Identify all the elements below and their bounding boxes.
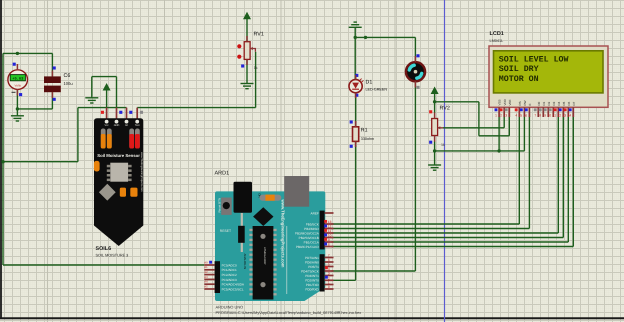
svg-text:8: 8: [539, 113, 541, 117]
svg-text:2: 2: [500, 113, 502, 117]
svg-text:5: 5: [328, 263, 330, 267]
svg-text:ARD1: ARD1: [215, 171, 230, 177]
svg-text:PD5/T1: PD5/T1: [308, 265, 319, 269]
svg-text:+5.63: +5.63: [12, 77, 24, 82]
Arduino UNO board ARD1: [215, 176, 325, 301]
wire: ground rail to LCD VSS and RW: [435, 150, 525, 152]
svg-text:11: 11: [328, 229, 332, 233]
svg-text:ARDUINO UNO: ARDUINO UNO: [216, 305, 244, 310]
svg-text:PD1/TXD: PD1/TXD: [306, 283, 320, 287]
svg-text:R1: R1: [361, 128, 368, 134]
svg-text:A3: A3: [204, 276, 208, 279]
node: junction at VSS wire: [497, 149, 500, 152]
svg-text:SOIL6: SOIL6: [96, 246, 112, 252]
svg-text:D1: D1: [542, 101, 546, 105]
svg-text:PD3/INT1: PD3/INT1: [305, 274, 319, 278]
node: junction A0 branch: [1, 160, 4, 163]
svg-text:PD7/AIN1: PD7/AIN1: [305, 256, 319, 260]
voltmeter (DC volts probe): [8, 63, 28, 97]
wire: voltmeter bottom / C6 bottom rail: [16, 89, 18, 116]
wire: A0 net branch to sensor: [3, 161, 78, 163]
svg-text:1: 1: [495, 113, 497, 117]
svg-text:11: 11: [553, 113, 557, 117]
DC motor: [406, 54, 425, 89]
wire: C6 legs: [51, 53, 53, 76]
svg-text:Reset BTN: Reset BTN: [217, 198, 221, 213]
svg-text:PC0/ADC0: PC0/ADC0: [222, 263, 237, 267]
wire: A0 net to Arduino PC0: [3, 264, 204, 266]
svg-text:1k: 1k: [254, 66, 258, 70]
node: junction voltmeter bottom: [16, 107, 19, 110]
LED D1 LED-GREEN: [349, 74, 363, 97]
svg-text:1: 1: [328, 281, 330, 285]
svg-text:12: 12: [328, 225, 332, 229]
svg-text:A1: A1: [204, 266, 208, 269]
svg-text:4: 4: [515, 113, 517, 117]
svg-text:12: 12: [558, 113, 562, 117]
svg-text:PB5/SCK: PB5/SCK: [306, 222, 320, 226]
svg-text:A0: A0: [204, 261, 208, 264]
svg-text:D4: D4: [557, 101, 561, 105]
svg-text:6: 6: [328, 258, 330, 262]
ground below RV2: [428, 164, 441, 166]
svg-text:E: E: [528, 103, 532, 105]
svg-text:6: 6: [525, 113, 527, 117]
wire: LCD D5 to Arduino pin 10: [562, 117, 564, 238]
power +5V arrow at sensor Vcc: [103, 83, 111, 91]
svg-text:SOIL DRY: SOIL DRY: [499, 65, 539, 74]
svg-text:PB2/SS/OC1B: PB2/SS/OC1B: [299, 236, 319, 240]
svg-text:10: 10: [328, 234, 332, 238]
wire: sensor Test to RV1 wiper: [137, 107, 255, 109]
Arduino right header AREF/PB5-PB0 (pins 13-8): [295, 211, 334, 250]
svg-text:SOIL LEVEL LOW: SOIL LEVEL LOW: [499, 56, 569, 65]
svg-text:AREF: AREF: [311, 212, 319, 216]
svg-text:RV2: RV2: [440, 105, 450, 111]
svg-text:PC4/ADC4/SDA: PC4/ADC4/SDA: [222, 283, 245, 287]
svg-text:C6: C6: [64, 73, 71, 79]
svg-text:Test: Test: [135, 124, 140, 127]
svg-text:PC1/ADC1: PC1/ADC1: [222, 268, 237, 272]
svg-text:PB0/ICP1/CLKO: PB0/ICP1/CLKO: [296, 245, 319, 249]
svg-text:D6: D6: [567, 101, 571, 105]
sheet border left edge: [0, 0, 2, 319]
svg-text:PB3/MOSI/OC2A: PB3/MOSI/OC2A: [295, 231, 320, 235]
svg-text:www.TheEngineeringProjects.com: www.TheEngineeringProjects.com: [140, 152, 143, 192]
svg-text:1k: 1k: [441, 143, 445, 147]
wire: LCD D6 to Arduino pin 9: [567, 117, 569, 243]
cursor guideline (blue vertical): [444, 0, 446, 322]
svg-text:PD4/T0/XCK: PD4/T0/XCK: [301, 269, 320, 273]
svg-text:D0: D0: [537, 101, 541, 105]
svg-text:LM041L: LM041L: [490, 39, 504, 43]
svg-text:A5: A5: [204, 285, 208, 288]
svg-text:VSS: VSS: [498, 99, 502, 105]
resistor R1 330ohm: [350, 120, 359, 147]
wire: A0 net top rail: [3, 52, 52, 54]
svg-text:330ohm: 330ohm: [361, 137, 374, 141]
wire: R1 to Arduino PD2: [355, 141, 357, 280]
svg-text:PC5/ADC5/SCL: PC5/ADC5/SCL: [222, 287, 244, 291]
svg-text:www.TheEngineeringProjects.com: www.TheEngineeringProjects.com: [281, 199, 286, 268]
svg-text:PROGRAM=C:\Users\My\AppData\Lo: PROGRAM=C:\Users\My\AppData\Local\Temp\a…: [216, 310, 362, 315]
wire: sensor GND bracket: [116, 77, 118, 108]
svg-text:Soil Moisture Sensor: Soil Moisture Sensor: [97, 153, 140, 158]
svg-text:VEE: VEE: [508, 99, 512, 105]
svg-text:PD6/AIN0: PD6/AIN0: [305, 260, 319, 264]
svg-text:3: 3: [328, 272, 330, 276]
ground below voltmeter: [11, 115, 24, 117]
potentiometer RV2 1k: [429, 105, 450, 147]
svg-text:PD0/RXD: PD0/RXD: [305, 287, 319, 291]
svg-text:VDD: VDD: [503, 98, 507, 105]
svg-text:A2: A2: [204, 271, 208, 274]
svg-text:5: 5: [520, 113, 522, 117]
svg-text:ANALOG IN: ANALOG IN: [243, 254, 247, 270]
svg-text:RV1: RV1: [254, 32, 264, 38]
sheet border bottom edge: [0, 317, 624, 319]
ground rail above LED and motor (inverted ground): [349, 26, 362, 28]
Arduino left header PC0-PC5 (analog A0-A5): [204, 261, 245, 293]
soil moisture sensor SOIL6 pins: [101, 108, 143, 119]
svg-text:3: 3: [505, 113, 507, 117]
svg-text:RESET: RESET: [220, 229, 231, 233]
wire: LCD D4 to Arduino pin 11: [557, 117, 559, 234]
svg-text:7: 7: [534, 113, 536, 117]
LCD pins VSS-VEE, RS RW E, D0-D7: [495, 98, 576, 117]
node: junction RV2 top: [433, 100, 436, 103]
wire: LCD E to Arduino pin 12: [528, 117, 530, 229]
svg-text:PC2/ADC2: PC2/ADC2: [222, 273, 237, 277]
wire: RV2 bottom to ground: [434, 142, 436, 166]
svg-text:10: 10: [548, 113, 552, 117]
svg-text:4: 4: [328, 267, 330, 271]
svg-text:MOTOR ON: MOTOR ON: [499, 75, 539, 84]
wire: LCD D7 to Arduino pin 8: [572, 117, 574, 247]
wire: RV2 top stem: [434, 93, 436, 113]
svg-text:ATMEGA328P: ATMEGA328P: [263, 247, 266, 265]
svg-text:D7: D7: [572, 101, 576, 105]
wire: RV1 top stem: [246, 19, 248, 42]
node: junction RV2 bottom: [433, 149, 436, 152]
svg-text:D1: D1: [366, 79, 373, 85]
node: junction voltmeter top: [16, 52, 19, 55]
svg-text:13: 13: [563, 113, 567, 117]
svg-text:100u: 100u: [64, 81, 73, 86]
svg-text:D5: D5: [562, 101, 566, 105]
wire: ground rail to motor top: [355, 36, 415, 38]
svg-text:7: 7: [328, 254, 330, 258]
wire: RV2 wiper to LCD VDD: [443, 127, 504, 129]
major grid column lines: [47, 0, 49, 322]
power +5V arrow at RV2: [431, 87, 439, 95]
wire: LCD RS to Arduino pin 13: [518, 117, 520, 225]
svg-text:LED-GREEN: LED-GREEN: [366, 87, 388, 91]
svg-text:14: 14: [568, 113, 572, 117]
svg-text:GND: GND: [114, 124, 120, 127]
wire: A0 net left vertical: [2, 53, 4, 265]
wire: RV2 top to LCD VEE: [435, 101, 479, 103]
potentiometer RV1 1k: [237, 32, 264, 71]
wire: sensor Vcc stem: [106, 91, 108, 109]
svg-text:LCD1: LCD1: [490, 31, 504, 37]
svg-text:D2: D2: [547, 101, 551, 105]
wire: LED to R1: [355, 93, 357, 128]
svg-text:PC3/ADC3: PC3/ADC3: [222, 278, 237, 282]
svg-text:9: 9: [328, 238, 330, 242]
svg-text:PB4/MISO: PB4/MISO: [304, 227, 319, 231]
svg-text:9: 9: [544, 113, 546, 117]
ground below RV1: [241, 83, 254, 85]
svg-text:PB1/OC1A: PB1/OC1A: [304, 240, 320, 244]
svg-text:13: 13: [328, 220, 332, 224]
Arduino right header PD7-PD0 (pins 7-0): [301, 254, 333, 292]
svg-text:Volts: Volts: [15, 84, 22, 88]
svg-text:A4: A4: [204, 281, 208, 284]
LCD display LM041L body: [489, 46, 608, 107]
svg-text:8: 8: [328, 243, 330, 247]
svg-text:D3: D3: [552, 101, 556, 105]
soil moisture sensor SOIL6 body: [94, 118, 143, 246]
wire: RV1 bottom to ground: [246, 59, 248, 83]
power +5V arrow at RV1: [243, 12, 251, 19]
svg-text:RS: RS: [518, 101, 522, 105]
wire: motor to Arduino PD4: [414, 82, 416, 272]
node: junction on ground rail: [364, 36, 367, 39]
svg-text:RW: RW: [523, 100, 527, 105]
svg-text:0: 0: [328, 285, 330, 289]
svg-text:SOIL MOISTURE 3: SOIL MOISTURE 3: [96, 254, 129, 258]
component pin stubs (dark red): [17, 36, 434, 147]
ground at sensor: [85, 97, 98, 99]
capacitor C6 100u: [44, 66, 73, 100]
node: junction at LED column: [354, 36, 357, 39]
